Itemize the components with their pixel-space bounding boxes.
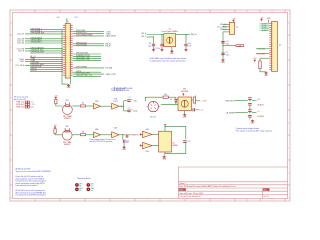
wire C12 down bbox=[165, 143, 186, 154]
capacitor C6 bbox=[127, 110, 130, 112]
capacitor C7 bbox=[126, 135, 128, 138]
microphone MIC1 bbox=[63, 105, 73, 115]
svg-text:GPIO6/DIR/D7: GPIO6/DIR/D7 bbox=[31, 42, 42, 44]
wire P1 right row GPIO/DIR(B4)/PWM3 bbox=[73, 35, 104, 37]
svg-text:MH1: MH1 bbox=[79, 184, 82, 186]
wire P1 right row /D.B/GPIO4+L bbox=[73, 33, 104, 35]
svg-text:1nF: 1nF bbox=[188, 45, 191, 47]
svg-text:E: E bbox=[288, 123, 289, 125]
wire P1 right row GPIO/D(X)+L4P40 bbox=[73, 73, 104, 75]
wire C14 to ground bbox=[123, 143, 125, 146]
svg-text:GPIO/DPWM3: GPIO/DPWM3 bbox=[76, 67, 87, 69]
svg-text:Id: 1/1: Id: 1/1 bbox=[264, 196, 270, 198]
wire P1 left row GPIO1/DMA_1 bbox=[30, 29, 63, 31]
wire P1 left row LCD_D5 bbox=[25, 40, 63, 42]
wire P2 pin rows bbox=[223, 23, 227, 25]
connector P2 pins bbox=[227, 24, 229, 32]
wire P1 left row LCD_RS bbox=[25, 48, 63, 50]
svg-text:Sheet: /: Sheet: / bbox=[180, 182, 187, 185]
wire P2 to caps bbox=[222, 32, 224, 59]
svg-text:mid rail (2.5V) for 5V operati: mid rail (2.5V) for 5V operation bbox=[89, 140, 112, 143]
svg-text:R8: R8 bbox=[82, 131, 84, 133]
power symbol +5V above P3 bbox=[261, 19, 263, 21]
wire C11 to label bbox=[195, 109, 198, 111]
svg-text:CAN_LOOP: CAN_LOOP bbox=[106, 73, 117, 76]
wire PWR_BCK to divider bbox=[235, 100, 248, 102]
wire U3A to U3B bbox=[101, 134, 112, 136]
resistor R8 bbox=[80, 134, 85, 136]
svg-text:GND: GND bbox=[251, 123, 256, 125]
wire P1 right row /PWM/EXP4+L3/B bbox=[73, 55, 101, 57]
wire crystal cap drop C8 bbox=[153, 37, 155, 43]
capacitor C3 bbox=[221, 53, 224, 55]
wire junction down to C14 bbox=[122, 135, 124, 140]
power symbol +5V above R7 bbox=[54, 126, 56, 128]
svg-text:f 3dB 100 Hz to 10 kHz: f 3dB 100 Hz to 10 kHz bbox=[111, 89, 130, 92]
svg-text:+_OUT: +_OUT bbox=[201, 101, 208, 103]
ground below caps bbox=[221, 59, 224, 62]
svg-text:Gnd: Gnd bbox=[30, 107, 33, 109]
op-amp U3B bbox=[112, 132, 120, 138]
svg-text:GND: GND bbox=[221, 62, 226, 64]
wire U2A to U2B bbox=[101, 105, 112, 107]
wire row2 to label bbox=[252, 112, 257, 114]
power symbol above U5 bbox=[164, 125, 166, 127]
capacitor divider R top row1 bbox=[248, 98, 251, 100]
wire P1 left row TxD1 bbox=[25, 60, 63, 62]
input mark U4B bbox=[140, 144, 143, 146]
svg-text:TL072: TL072 bbox=[113, 101, 118, 103]
mounting hole MH1 bbox=[75, 183, 79, 187]
capacitor C12 bbox=[183, 141, 186, 143]
ground below P1 bbox=[67, 84, 70, 87]
resistor R3 bbox=[259, 58, 261, 61]
svg-text:100n: 100n bbox=[226, 54, 230, 56]
svg-text:+C6: +C6 bbox=[127, 107, 130, 109]
svg-text:MH2: MH2 bbox=[91, 184, 94, 186]
svg-text:TxD1: TxD1 bbox=[20, 61, 25, 63]
wire junction vertical bbox=[123, 101, 125, 111]
wire P1 left row LCD_D6 bbox=[25, 38, 63, 40]
wire U5 top loop bbox=[165, 126, 186, 139]
svg-text:D1: D1 bbox=[170, 99, 172, 101]
svg-text:MH3: MH3 bbox=[79, 188, 82, 190]
svg-text:10u: 10u bbox=[126, 142, 129, 144]
wire crystal cap drop C9 bbox=[161, 35, 163, 44]
capacitor C10 bbox=[185, 35, 187, 44]
capacitor divider row2 bbox=[248, 110, 251, 112]
svg-text:GND: GND bbox=[122, 149, 127, 151]
wire C7 to label bbox=[129, 134, 131, 136]
ground below C14 bbox=[123, 146, 126, 148]
svg-text:Rev:: Rev: bbox=[263, 190, 267, 192]
svg-text:PB_7: PB_7 bbox=[141, 36, 146, 38]
svg-text:100u: 100u bbox=[226, 43, 230, 45]
svg-text:F: F bbox=[288, 148, 289, 150]
svg-text:GND: GND bbox=[264, 75, 269, 77]
svg-text:22p: 22p bbox=[148, 45, 151, 47]
svg-text:GND: GND bbox=[67, 87, 72, 89]
connector P3 pins bbox=[269, 23, 271, 69]
capacitor C9 bbox=[160, 44, 163, 46]
svg-text:B: B bbox=[11, 48, 12, 50]
ground below X1 bbox=[171, 47, 173, 50]
op-amp U4A bbox=[143, 131, 153, 137]
wire J2 to SP1 bbox=[176, 103, 178, 105]
wire U3B output bbox=[119, 134, 125, 136]
svg-text:EM6022: EM6022 bbox=[64, 144, 70, 146]
svg-text:GPIO9/DIR+D/B3: GPIO9/DIR+D/B3 bbox=[31, 52, 44, 54]
mounting hole MH3 bbox=[75, 188, 79, 192]
op-amp U2A bbox=[94, 103, 101, 109]
connector J2 PS/2 DIN bbox=[148, 101, 158, 111]
svg-text:6: 6 bbox=[147, 200, 148, 202]
svg-text:7: 7 bbox=[172, 11, 173, 13]
resistor R10 bbox=[163, 96, 168, 98]
diode D1 bbox=[175, 97, 177, 99]
wire P1 right row GPIO/DPL7/PH_+D3 bbox=[73, 75, 101, 77]
svg-text:P2: P2 bbox=[236, 27, 238, 29]
svg-text:9: 9 bbox=[222, 11, 223, 13]
svg-text:File: W:\Home\Documents\Elec\A: File: W:\Home\Documents\Elec\AVR-Olimex-… bbox=[180, 185, 236, 188]
wire R3 bottom to ground bbox=[260, 69, 266, 72]
input mark U4A bbox=[140, 133, 143, 135]
svg-text:R10: R10 bbox=[164, 94, 167, 96]
wire U2B output junction bbox=[119, 105, 124, 107]
svg-text:C9 22p: C9 22p bbox=[155, 48, 161, 50]
svg-text:4: 4 bbox=[97, 200, 98, 202]
power symbol +5V left of R3 bbox=[254, 60, 256, 62]
ground below C8 bbox=[153, 47, 155, 49]
wire P1 left row RxD1 bbox=[25, 58, 63, 60]
svg-text:FerroCrystal 16MHz: FerroCrystal 16MHz bbox=[162, 30, 178, 33]
svg-text:F: F bbox=[11, 148, 12, 150]
wire J2 top to R10 bbox=[145, 97, 163, 101]
wire CA_SENS to divider bbox=[235, 112, 248, 114]
svg-text:2: 2 bbox=[47, 200, 48, 202]
svg-text:MH4: MH4 bbox=[91, 188, 94, 190]
connector P3 LCD header bbox=[272, 22, 278, 72]
svg-text:PS2 KB: PS2 KB bbox=[150, 117, 157, 119]
svg-text:GND: GND bbox=[162, 159, 167, 161]
svg-text:M3: M3 bbox=[91, 186, 93, 188]
connector P1 40-pin header bbox=[65, 24, 70, 79]
svg-text:Mounting Holes: Mounting Holes bbox=[77, 177, 90, 180]
wire R8 to U3A bbox=[86, 134, 94, 136]
svg-text:GPIO12: GPIO12 bbox=[31, 70, 37, 72]
svg-text:PWR_BCK: PWR_BCK bbox=[225, 100, 235, 102]
wire P1 right row GPIO/DPWM3 bbox=[73, 67, 104, 69]
wire R6 to U2A bbox=[86, 105, 94, 107]
wire P3 contrast network bbox=[260, 57, 269, 59]
resistor R5 bbox=[55, 99, 57, 103]
title block bbox=[178, 167, 287, 199]
wire to +5V output label bbox=[223, 45, 236, 47]
svg-text:GPIO3/DMA_RD3: GPIO3/DMA_RD3 bbox=[31, 32, 45, 35]
svg-text:LCD_E: LCD_E bbox=[18, 51, 25, 53]
mounting hole MH4 bbox=[87, 188, 91, 192]
wire P1 right row GPIO/DXCOM4 bbox=[73, 53, 101, 55]
power symbol +5V above R5 bbox=[55, 97, 57, 99]
mounting hole MH2 bbox=[87, 183, 91, 187]
regulator U5 bbox=[159, 131, 172, 152]
wire R5 to MIC1 bbox=[56, 104, 63, 106]
svg-text:Title:: Title: bbox=[179, 189, 184, 192]
wire P1 right row GPIO/EXOM3 bbox=[73, 45, 104, 47]
svg-text:LCD_D4: LCD_D4 bbox=[17, 43, 24, 45]
svg-text:B: B bbox=[288, 48, 289, 50]
svg-text:PB_B: PB_B bbox=[106, 46, 112, 48]
svg-text:8: 8 bbox=[197, 11, 198, 13]
wire dividers to ground bbox=[249, 106, 251, 109]
wire P1 left row LCD_D7 bbox=[25, 33, 63, 35]
svg-text:GPIO/EXOM3: GPIO/EXOM3 bbox=[76, 44, 87, 46]
svg-text:3: 3 bbox=[72, 200, 73, 202]
resistor R11 bbox=[193, 97, 195, 103]
wire P1 left row LCD_E bbox=[25, 50, 63, 52]
svg-text:Pick values to match the ADC r: Pick values to match the ADC range requi… bbox=[236, 130, 273, 133]
wire P1 left row AL_D1 bbox=[30, 56, 63, 58]
wire P1 right row GPIO8 bbox=[73, 71, 101, 73]
hierarchical label +5V bbox=[236, 45, 244, 47]
svg-text:PWR_Gnd: PWR_Gnd bbox=[16, 107, 24, 109]
microphone MIC2 bbox=[62, 130, 72, 140]
wire row1 to label bbox=[252, 100, 257, 102]
svg-text:8: 8 bbox=[197, 200, 198, 202]
capacitor C8 bbox=[152, 44, 155, 46]
ground below SP1 bbox=[184, 111, 186, 114]
svg-text:_RxD: _RxD bbox=[132, 111, 138, 113]
buzzer SP1 bbox=[178, 97, 192, 111]
ground below C10 bbox=[185, 47, 187, 49]
wire P1 left row GPIO2/DMA_2 bbox=[30, 31, 63, 33]
ground below dividers bbox=[251, 120, 254, 123]
svg-text:11: 11 bbox=[271, 11, 273, 13]
svg-text:PD_BM: PD_BM bbox=[106, 68, 113, 70]
wire MIC1 to R6 bbox=[72, 105, 80, 107]
svg-text:M3: M3 bbox=[79, 190, 81, 192]
svg-text:These pins are reserved for BU: These pins are reserved for BUS IO BUFFE… bbox=[16, 170, 52, 173]
ground below U5 bbox=[163, 154, 165, 156]
svg-text:CAN_SELM: CAN_SELM bbox=[106, 35, 117, 38]
svg-text:EM6022: EM6022 bbox=[64, 118, 70, 120]
wire P1 right row GPIO/PDP5+L3/B bbox=[73, 60, 101, 62]
svg-text:GPIO/DPL7/PH_+D3: GPIO/DPL7/PH_+D3 bbox=[76, 75, 92, 77]
svg-text:1: 1 bbox=[22, 11, 23, 13]
op-amp U4B bbox=[143, 142, 153, 148]
svg-text:LM386: LM386 bbox=[172, 145, 178, 147]
svg-text:M3: M3 bbox=[91, 190, 93, 192]
svg-text:1: 1 bbox=[22, 200, 23, 202]
svg-text:R6: R6 bbox=[82, 103, 84, 105]
svg-text:_TxD: _TxD bbox=[132, 100, 138, 102]
wire PB_6 to crystal X1 bbox=[147, 34, 164, 36]
svg-text:PB_6J: PB_6J bbox=[191, 34, 197, 36]
op-amp U2B bbox=[112, 103, 120, 109]
svg-text:GPIO/PDP5+L3/B: GPIO/PDP5+L3/B bbox=[76, 59, 90, 61]
wire SP1 to OUT label bbox=[192, 99, 194, 101]
svg-text:GND: GND bbox=[183, 117, 188, 119]
wire PB_7 stub bbox=[147, 36, 154, 38]
svg-text:7: 7 bbox=[172, 200, 173, 202]
svg-text:10: 10 bbox=[246, 11, 248, 13]
op-amp U3A bbox=[94, 132, 101, 138]
svg-text:calculations B an NOTHING but: calculations B an NOTHING but keyinfra bbox=[16, 194, 46, 197]
svg-text:GPIO/DIR(B4)/PWM3: GPIO/DIR(B4)/PWM3 bbox=[76, 35, 92, 37]
wire P1 bottom to ground bbox=[62, 71, 69, 84]
svg-text:E: E bbox=[11, 123, 12, 125]
svg-text:Size: A4 Date: 23 jun 2013: Size: A4 Date: 23 jun 2013 bbox=[180, 192, 205, 195]
svg-text:10: 10 bbox=[246, 200, 248, 202]
svg-text:JR-SNS: JR-SNS bbox=[257, 116, 264, 118]
wire R7 to MIC2 bbox=[55, 133, 62, 135]
svg-text:GND: GND bbox=[170, 53, 175, 55]
svg-text:JR-BCK: JR-BCK bbox=[257, 104, 264, 106]
power symbol +5V above P2 bbox=[233, 20, 235, 22]
wire P1 right row GPIO/CMD1 bbox=[73, 31, 104, 33]
svg-text:BUZZER: BUZZER bbox=[181, 91, 189, 93]
wire to C6 bbox=[124, 110, 128, 112]
svg-text:3: 3 bbox=[72, 11, 73, 13]
svg-text:C13: C13 bbox=[187, 141, 190, 143]
power symbol +5V above SP1 bbox=[182, 93, 184, 95]
wire crystal output bbox=[176, 34, 190, 36]
wire P1 left row GPIO9/DIR+D/B3 bbox=[30, 52, 63, 54]
wire U4B to U5 bbox=[152, 145, 158, 147]
svg-text:4: 4 bbox=[97, 11, 98, 13]
capacitor C2 bbox=[221, 41, 224, 43]
svg-text:+C5: +C5 bbox=[127, 97, 130, 99]
svg-text:dig IO pins JP2: dig IO pins JP2 bbox=[14, 99, 26, 101]
svg-text:M3: M3 bbox=[79, 186, 81, 188]
wire R10 to diode bbox=[168, 96, 176, 98]
svg-text:5: 5 bbox=[122, 200, 123, 202]
resistor R7 bbox=[54, 129, 56, 133]
ground below C9 bbox=[161, 47, 163, 49]
ground below P3 bbox=[264, 72, 267, 75]
wire P1 left row CCL_RCH bbox=[25, 64, 63, 66]
capacitor C5 bbox=[127, 100, 130, 102]
wire P1 right row GPIO/EXP7+L3/B bbox=[73, 57, 101, 59]
wire P1 left row GPIO11 bbox=[30, 68, 63, 70]
svg-text:(and optionally clean buttons): (and optionally clean buttons) bbox=[16, 184, 38, 187]
capacitor C14 bbox=[123, 140, 125, 143]
wire P1 right row GPIO/EXOM2 bbox=[73, 43, 104, 45]
svg-text:be adjusted to match the cryst: be adjusted to match the crystal specifi… bbox=[150, 60, 186, 63]
connector P2 power header bbox=[229, 22, 234, 34]
svg-text:CCL_RCH: CCL_RCH bbox=[15, 65, 25, 67]
wire P1 left row LCD_D4 bbox=[25, 42, 63, 44]
wire diode to J2 right pin bbox=[161, 102, 176, 104]
svg-text:LCD_D7: LCD_D7 bbox=[17, 34, 24, 36]
wire U4A to U5 bbox=[152, 133, 158, 135]
svg-text:11: 11 bbox=[271, 200, 273, 202]
connector P1 pins bbox=[63, 25, 73, 75]
wire P1 left bus vertical bbox=[61, 30, 63, 72]
svg-text:U4B: U4B bbox=[145, 151, 148, 153]
wire P1 top supply bbox=[66, 18, 68, 23]
svg-text:PWM_IN: PWM_IN bbox=[131, 135, 139, 137]
svg-text:P3: P3 bbox=[279, 45, 281, 47]
svg-text:KiCad E.D.A. kicad 4.0.7: KiCad E.D.A. kicad 4.0.7 bbox=[180, 195, 203, 198]
crystal X1 bbox=[164, 34, 176, 47]
svg-text:CA_SENS: CA_SENS bbox=[226, 111, 235, 114]
svg-text:5: 5 bbox=[122, 11, 123, 13]
wire P1 left row GPIO12 bbox=[30, 70, 63, 72]
wire P1 left row GPIO/DIR5 bbox=[30, 62, 63, 64]
wire P1 left row GPIO/DPL/DB bbox=[30, 66, 63, 68]
resistor R6 bbox=[80, 105, 85, 107]
svg-text:2: 2 bbox=[47, 11, 48, 13]
wire MIC2 to R8 bbox=[72, 134, 80, 136]
capacitor C11 bbox=[193, 108, 195, 111]
svg-text:6: 6 bbox=[147, 11, 148, 13]
svg-text:9: 9 bbox=[222, 200, 223, 202]
wire to C5 bbox=[124, 100, 128, 102]
